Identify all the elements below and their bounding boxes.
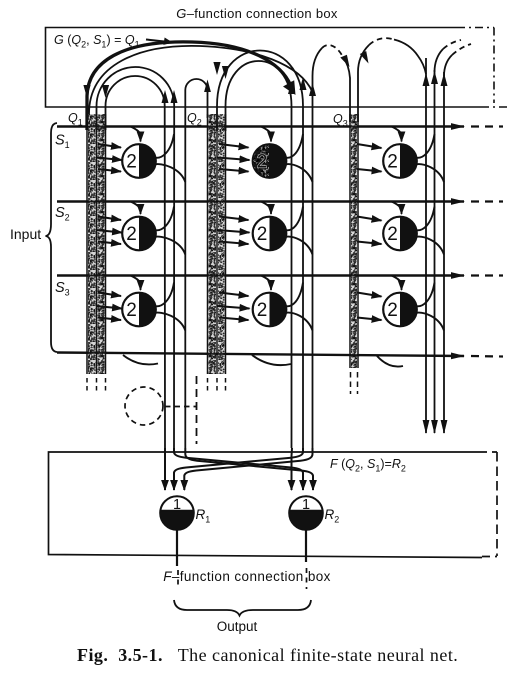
svg-text:2: 2	[387, 152, 398, 173]
svg-text:2: 2	[257, 224, 268, 245]
svg-text:2: 2	[257, 152, 268, 173]
svg-text:Input: Input	[10, 226, 41, 242]
svg-text:2: 2	[126, 300, 137, 321]
svg-text:2: 2	[387, 224, 398, 245]
svg-text:2: 2	[126, 152, 137, 173]
svg-text:1: 1	[302, 497, 310, 513]
svg-text:Fig. 3.5-1. The canonical f: Fig. 3.5-1. The canonical finite-state n…	[77, 645, 458, 665]
svg-text:Output: Output	[217, 619, 258, 634]
svg-text:G–function connection box: G–function connection box	[176, 6, 338, 21]
svg-text:2: 2	[387, 300, 398, 321]
svg-text:1: 1	[173, 497, 181, 513]
svg-text:2: 2	[126, 224, 137, 245]
svg-text:2: 2	[257, 300, 268, 321]
svg-text:F–function connection box: F–function connection box	[163, 569, 331, 584]
